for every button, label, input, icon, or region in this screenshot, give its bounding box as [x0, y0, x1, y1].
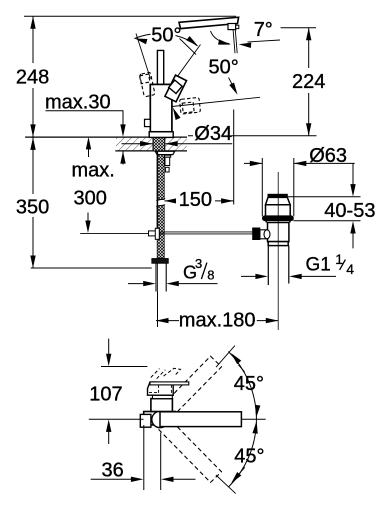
svg-text:224: 224	[292, 71, 325, 93]
svg-text:45°: 45°	[234, 445, 264, 467]
svg-text:max.30: max.30	[45, 91, 111, 113]
svg-text:max.180: max.180	[179, 310, 256, 332]
svg-text:Ø63: Ø63	[309, 145, 347, 167]
svg-text:150: 150	[179, 189, 212, 211]
svg-text:107: 107	[89, 383, 122, 405]
svg-text:8: 8	[207, 268, 214, 283]
svg-text:350: 350	[16, 197, 49, 219]
svg-text:G1: G1	[306, 255, 331, 276]
svg-text:50°: 50°	[151, 24, 181, 46]
svg-text:7°: 7°	[254, 19, 273, 41]
svg-text:45°: 45°	[234, 373, 264, 395]
svg-text:40-53: 40-53	[324, 200, 375, 222]
svg-text:50°: 50°	[209, 57, 239, 79]
svg-text:Ø34: Ø34	[194, 123, 232, 145]
svg-text:4: 4	[346, 261, 354, 277]
svg-text:max.: max.	[72, 159, 115, 181]
svg-text:3: 3	[195, 256, 202, 271]
svg-text:300: 300	[74, 188, 107, 210]
svg-text:248: 248	[16, 66, 49, 88]
svg-text:36: 36	[102, 459, 124, 481]
